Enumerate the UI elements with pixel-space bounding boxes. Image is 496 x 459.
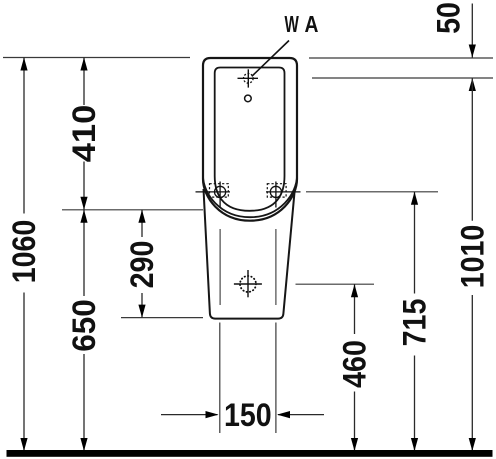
dimension 410 arrow up (80, 58, 87, 71)
dimension 650 arrow up (80, 210, 87, 223)
urinal lower body (204, 189, 295, 319)
extension line 150 left vertical (219, 323, 221, 434)
svg-text:410: 410 (67, 105, 103, 162)
dimension 1060 line (23, 58, 25, 452)
floor line (7, 450, 493, 457)
dimension 50 arrow down (469, 45, 476, 58)
dimension 150 label (224, 397, 272, 433)
dimension 410 label (67, 105, 103, 162)
dimension 410 arrow down (80, 197, 87, 210)
extension line 150 right vertical (275, 323, 277, 434)
dimension 410 line (83, 58, 85, 210)
mounting hole left (196, 182, 231, 208)
dimension 1010 arrow down (469, 438, 476, 451)
WA crosshair (238, 69, 259, 87)
dimension 290 arrow down (138, 305, 145, 318)
dimension 715 line (414, 192, 416, 451)
dimension 150 right line (278, 414, 324, 416)
small circle overflow hole (245, 95, 252, 102)
svg-text:50: 50 (431, 2, 467, 34)
hole centerline left (219, 229, 221, 305)
extension line 290 bottom left (121, 317, 203, 319)
dimension 150 arrow left (277, 411, 290, 418)
hole centerline right (275, 229, 277, 305)
dimension 715 arrow up (411, 192, 418, 205)
dimension 290 label (125, 241, 161, 289)
svg-text:W: W (284, 12, 299, 38)
outlet crosshair (234, 270, 262, 297)
WA leader line (252, 41, 289, 77)
bowl lip curve (203, 176, 297, 218)
svg-text:715: 715 (397, 299, 433, 347)
extension line WA level right (312, 77, 493, 79)
dimension 150 left line (161, 414, 218, 416)
svg-text:460: 460 (337, 340, 373, 388)
svg-text:290: 290 (125, 241, 161, 289)
urinal bowl outer (203, 58, 297, 221)
extension line outlet level right (296, 283, 375, 285)
dimension 50 arrow up (469, 78, 476, 91)
dimension 50 line above (471, 4, 473, 58)
dimension 1060 label (7, 220, 43, 284)
dimension 290 line (141, 210, 143, 318)
extension line rim level left (62, 209, 203, 211)
inner rim (215, 68, 285, 211)
dimension 1010 line (471, 78, 473, 451)
dimension 150 arrow right (206, 411, 219, 418)
extension line top left (1060 top) (3, 57, 190, 59)
extension line hole level right (306, 191, 438, 193)
dimension 715 label (397, 299, 433, 347)
dimension 1060 arrow down (20, 438, 27, 451)
svg-text:1010: 1010 (455, 225, 491, 289)
dimension 1060 arrow up (20, 58, 27, 71)
dimension 50 label (431, 2, 467, 34)
dimension 460 line (354, 284, 356, 451)
dimension 290 arrow up (138, 210, 145, 223)
dimension 650 label (66, 299, 103, 352)
WA label (284, 12, 299, 38)
svg-text:A: A (305, 13, 319, 38)
dimension 715 arrow down (411, 438, 418, 451)
dimension 460 arrow up (351, 284, 358, 297)
dimension 1010 label (455, 225, 491, 289)
dimension 650 arrow down (80, 438, 87, 451)
dimension 650 line (83, 210, 85, 451)
extension line top right (309, 57, 493, 59)
dimension 460 arrow down (351, 438, 358, 451)
svg-text:650: 650 (66, 299, 103, 352)
svg-text:1060: 1060 (7, 220, 43, 284)
mounting hole right (266, 182, 301, 208)
dimension 460 label (337, 340, 373, 388)
svg-text:150: 150 (224, 397, 272, 433)
